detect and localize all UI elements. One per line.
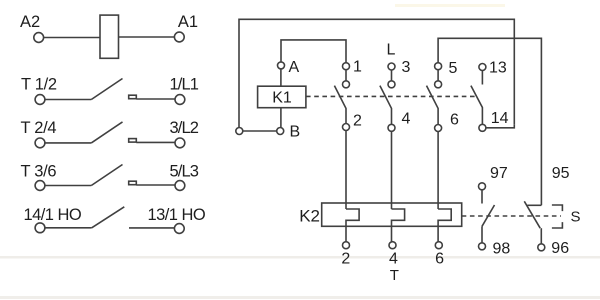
wire 2 to K2: [345, 131, 347, 210]
terminal 3/L2: [175, 138, 185, 148]
contact K1 5-6: terminal 5: [435, 63, 442, 70]
NC seat 95: [527, 204, 541, 206]
actuator bracket S: [552, 205, 563, 228]
svg-text:3/L2: 3/L2: [169, 119, 198, 137]
terminal 2 bottom: [343, 242, 350, 249]
wire to contact 14: [486, 124, 514, 128]
svg-text:3: 3: [402, 59, 411, 76]
switch blade row4: [92, 207, 125, 228]
heater element 1: [346, 209, 359, 242]
svg-text:T 1/2: T 1/2: [21, 76, 57, 94]
wire: [45, 142, 91, 144]
svg-text:97: 97: [490, 165, 508, 182]
contact K1 3-4: terminal 3: [388, 63, 395, 70]
wire: [44, 37, 100, 39]
terminal 2: [343, 124, 350, 131]
terminal 4: [388, 124, 395, 131]
dashed linkage K2: [462, 215, 561, 217]
wire: [437, 70, 439, 81]
terminal T1/2: [35, 95, 45, 105]
svg-text:A: A: [289, 59, 300, 76]
terminal 14: [479, 124, 486, 131]
svg-text:96: 96: [551, 240, 569, 257]
wire B to K1: [280, 108, 282, 128]
wire: [391, 70, 393, 81]
svg-text:L: L: [387, 42, 396, 59]
contact K1 1-2: terminal 1: [343, 63, 350, 70]
contact pivot 5-6: [435, 81, 442, 88]
blade 13-14: [471, 86, 483, 125]
wire: [540, 228, 542, 243]
wire: [481, 226, 483, 243]
node A: [278, 62, 285, 69]
blade 1-2: [334, 86, 346, 124]
svg-text:T 2/4: T 2/4: [21, 119, 57, 137]
switch blade row1: [91, 79, 122, 100]
svg-text:B: B: [290, 124, 301, 141]
svg-text:A2: A2: [20, 13, 40, 31]
contact K2 97-98: terminal 97: [479, 183, 486, 190]
wire: [481, 71, 483, 85]
faint top band: [395, 4, 505, 7]
wire top rail: [239, 19, 514, 127]
svg-text:S: S: [571, 209, 581, 226]
wire: [45, 185, 91, 187]
blade 3-4: [380, 86, 392, 125]
svg-text:13/1 HO: 13/1 HO: [148, 206, 206, 224]
wire 6 to K2: [437, 132, 439, 210]
svg-text:1: 1: [353, 59, 362, 76]
terminal 6: [435, 125, 442, 132]
switch blade row2: [91, 122, 122, 143]
svg-text:2: 2: [353, 113, 362, 130]
heater element 3: [438, 209, 451, 242]
terminal 6 bottom: [435, 242, 442, 249]
terminal 5/L3: [175, 181, 185, 191]
blade 5-6: [427, 86, 439, 125]
wire: [45, 99, 91, 101]
svg-text:98: 98: [493, 241, 511, 258]
faint bottom band: [0, 296, 600, 299]
wire: [345, 70, 347, 81]
contact pivot 3-4: [388, 81, 395, 88]
svg-text:6: 6: [435, 251, 444, 268]
svg-text:A1: A1: [178, 13, 198, 31]
terminal 1/L1: [175, 95, 185, 105]
fixed contact row2: [129, 139, 137, 143]
wire: [136, 141, 175, 143]
wire A to contact 1: [281, 40, 346, 63]
coil K1 (A1-A2): [100, 15, 119, 58]
terminal 13/1: [174, 224, 184, 234]
switch blade row3: [91, 165, 122, 186]
wire: [119, 36, 175, 38]
svg-text:1/L1: 1/L1: [169, 76, 198, 94]
wire rail to 5: [438, 38, 541, 205]
fixed contact row3: [129, 181, 137, 185]
svg-text:T: T: [390, 267, 399, 284]
terminal 4 bottom: [389, 242, 396, 249]
blade 95-96 (NC): [524, 201, 540, 228]
svg-text:4: 4: [389, 251, 398, 268]
svg-text:T 3/6: T 3/6: [21, 163, 57, 181]
svg-text:14/1 HO: 14/1 HO: [24, 206, 82, 224]
node B: [277, 128, 284, 135]
svg-text:13: 13: [489, 59, 507, 76]
wire: [481, 190, 483, 204]
wire: [136, 184, 175, 186]
svg-text:2: 2: [341, 251, 350, 268]
svg-text:5/L3: 5/L3: [169, 163, 198, 181]
node left rail terminal: [236, 128, 243, 135]
terminal 98: [479, 243, 486, 250]
wire 4 to K2: [391, 131, 393, 209]
terminal A1: [174, 32, 184, 42]
terminal T3/6: [35, 181, 45, 191]
wire K1 to A: [280, 69, 282, 86]
contact pivot 1-2: [343, 81, 350, 88]
terminal 14/1: [35, 223, 45, 233]
blade 97-98: [482, 205, 495, 226]
overload relay box K2: [322, 203, 462, 226]
fixed contact row1: [129, 95, 137, 99]
wire: [45, 227, 92, 229]
terminal A2: [34, 33, 44, 43]
dashed linkage K1: [306, 95, 478, 97]
terminal T2/4: [35, 138, 45, 148]
heater element 2: [392, 209, 405, 242]
wire: [129, 227, 174, 229]
svg-text:4: 4: [402, 111, 411, 128]
svg-text:K2: K2: [299, 207, 320, 226]
wire: [243, 130, 277, 132]
wire: [136, 98, 175, 100]
svg-text:6: 6: [450, 112, 459, 129]
svg-text:14: 14: [491, 110, 509, 127]
terminal 96: [538, 244, 545, 251]
svg-text:K1: K1: [272, 90, 292, 107]
svg-text:5: 5: [449, 60, 458, 77]
contact K1 13-14: terminal 13: [479, 64, 486, 71]
relay box K1: [258, 86, 306, 108]
faint band lower: [0, 256, 600, 259]
svg-text:95: 95: [552, 165, 570, 182]
